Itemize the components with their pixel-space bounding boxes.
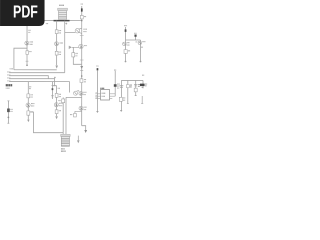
net label bus 5: [7, 80, 10, 82]
wire base bus y97.1: [66, 96, 82, 98]
wire main column x81.7 lower: [81, 64, 83, 125]
PDF badge: [0, 0, 45, 26]
net label sense: [53, 85, 55, 87]
net label b: [29, 87, 31, 89]
net label bus 3: [7, 74, 10, 76]
capacitor C4 tick: [26, 60, 29, 62]
resistor R6: [27, 94, 33, 98]
wire branch C vertical x64.7: [64, 21, 66, 73]
capacitor C1 plus mark: [65, 23, 67, 25]
wire tick below D3: [80, 69, 83, 71]
wire sense branch x52.4: [51, 82, 53, 99]
wire dark segment under connector: [54, 20, 70, 22]
transistor Q3: [79, 44, 87, 48]
net label PWR dark: [6, 84, 12, 86]
transistor Q8: [26, 103, 35, 107]
node dot end of badge branch: [26, 64, 28, 66]
junction node main column: [81, 75, 83, 77]
net label gnd small: [6, 87, 10, 89]
junction plus mark: [54, 77, 56, 79]
feedback column x115.2: [114, 70, 120, 96]
resistor R2: [55, 51, 61, 55]
wire feed to lower branch: [51, 86, 56, 117]
capacitor C9 column: [134, 80, 140, 95]
capacitor C3: [26, 51, 32, 55]
wire transformer feed left: [62, 97, 64, 134]
wire corner to negative rail arrow: [82, 126, 86, 130]
transistor Q1: [55, 42, 63, 46]
wire right column x125.5: [125, 27, 127, 61]
wire cap tick on main column: [80, 59, 84, 61]
diode D6: [52, 88, 54, 90]
wire bus line L4: [9, 79, 54, 86]
wire branch B vertical x56.6: [56, 21, 58, 66]
diode D3 arrow: [80, 66, 83, 69]
wire h bus y40: [126, 39, 141, 41]
capacitor C12 plates: [51, 95, 54, 97]
resistor R1: [55, 30, 61, 34]
capacitor C6: [55, 110, 61, 114]
power flag column x97.4: [96, 66, 99, 113]
output block end column: [140, 75, 147, 88]
capacitor C8 column: [119, 80, 125, 112]
net label bus 2: [7, 71, 10, 73]
transistor Q5: [74, 91, 80, 95]
wire link D2 to Q3: [72, 46, 79, 48]
wire bus line L5: [9, 82, 69, 93]
wire bus line L3: [9, 76, 48, 79]
wire top supply bus: [44, 20, 82, 22]
transformer T1: [61, 134, 71, 151]
transistor Q4: [79, 91, 87, 95]
wire right lower bus: [121, 79, 143, 81]
net label +V: [46, 23, 49, 25]
diode D5 stub: [134, 33, 137, 42]
power flag node V2: [124, 25, 127, 27]
resistor R5: [70, 113, 76, 117]
diode D1: [81, 8, 83, 11]
wire base feed to Q2: [65, 31, 76, 33]
resistor R8: [124, 50, 130, 54]
wire stub to R5: [75, 111, 82, 113]
net label c: [58, 87, 60, 89]
net label top: [81, 3, 83, 5]
wire bus line L2: [9, 72, 64, 74]
wire bus line L1: [14, 69, 57, 71]
net label on badge branch: [28, 30, 30, 32]
capacitor C11: [58, 99, 64, 103]
ground stub x142.2: [141, 96, 143, 103]
diode D4: [125, 29, 127, 31]
wire emitter tick Q2: [80, 35, 84, 37]
resistor R10 column: [126, 80, 132, 103]
wire corner to x13.9: [14, 48, 27, 70]
power arrow end column x28.3: [27, 120, 29, 122]
resistor R4: [80, 79, 86, 83]
wire badge branch x27: [26, 26, 28, 65]
net label bus 1: [10, 68, 13, 70]
transistor Q12 column: [138, 40, 145, 62]
net label bus 4: [7, 77, 10, 79]
transistor Q10: [123, 42, 130, 45]
transistor Q9: [54, 103, 62, 107]
connector J1: [7, 101, 13, 124]
capacitor C2: [72, 53, 78, 57]
capacitor C5: [27, 111, 33, 115]
op-amp U1 block: [95, 88, 115, 100]
wire output corner to bottom bus: [30, 112, 63, 133]
diode D2: [69, 46, 72, 49]
wire main column x81.7 upper: [81, 6, 83, 64]
wire below-bus column x28.3: [27, 82, 29, 120]
svg-text:PDF: PDF: [13, 1, 38, 21]
transistor Q2: [75, 28, 87, 33]
junction bus and main column: [81, 20, 83, 22]
resistor R3: [80, 15, 86, 19]
power arrow end of branch B: [55, 65, 58, 68]
power arrow by transformer: [77, 136, 80, 144]
power arrow negative rail: [84, 130, 87, 133]
resistor R7: [55, 93, 61, 97]
transistor Q7: [25, 41, 33, 45]
wire transformer feed right: [65, 97, 67, 134]
connector CN1: [58, 5, 68, 19]
junction dot column x125.5: [125, 61, 127, 63]
wire branch E capacitor drop: [73, 47, 81, 64]
transistor Q6: [79, 106, 87, 110]
power arrow end lower branch: [55, 116, 58, 119]
